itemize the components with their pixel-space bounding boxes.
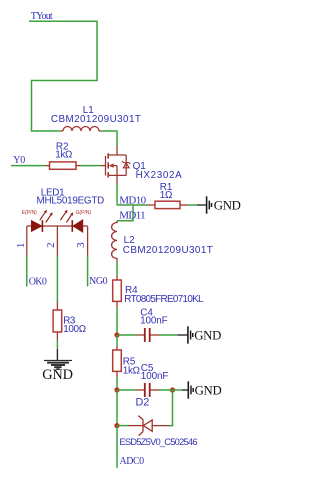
resistor R2 1kΩ [45, 165, 49, 167]
wire R1 to GND [188, 204, 197, 206]
svg-text:3: 3 [75, 242, 87, 248]
svg-text:Y0: Y0 [13, 155, 25, 166]
svg-text:100nF: 100nF [140, 316, 168, 327]
wire R3 to GND [56, 340, 58, 350]
LED1 right diode [73, 220, 83, 233]
wire pin2 to R3 [56, 256, 58, 302]
power port GND (right of C4) [177, 326, 192, 343]
svg-text:100nF: 100nF [141, 371, 169, 382]
inductor L1 [61, 127, 102, 132]
node C4 junction [114, 332, 119, 337]
wire pin3 to NG0 [87, 256, 89, 287]
wire R2 to Q1 gate [81, 165, 101, 167]
wire R5 to C5 node [116, 377, 118, 390]
inductor L2 [112, 221, 117, 262]
svg-text:OK0: OK0 [29, 277, 47, 288]
wire branch down to L2 [117, 205, 133, 221]
resistor R4 RT0805FRE0710KL [116, 275, 118, 280]
svg-text:1kΩ: 1kΩ [55, 150, 72, 161]
wire L1 to Q1 drain [101, 131, 117, 146]
svg-text:GND: GND [195, 383, 222, 397]
wire D2 up to C5 node [170, 390, 173, 426]
svg-text:GND: GND [42, 367, 73, 383]
Q1 body diode [122, 161, 130, 168]
LED1 left diode [31, 220, 42, 231]
wire C4 to GND [160, 334, 178, 336]
resistor R1 1Ω [147, 204, 155, 206]
wire D2 node down to ADC0 [116, 426, 118, 468]
wire R4 to C4 node [116, 307, 118, 335]
svg-text:E(P/N): E(P/N) [22, 210, 37, 216]
svg-text:MD11: MD11 [119, 209, 145, 221]
svg-text:MHL5019EGTD: MHL5019EGTD [37, 196, 105, 207]
wire Q1 source down to MD10 node [116, 184, 118, 205]
svg-text:1Ω: 1Ω [160, 190, 172, 201]
node C5 junction left [114, 387, 119, 392]
power port GND (right of C5) [182, 381, 193, 398]
node D2 junction [114, 423, 119, 428]
svg-text:GND: GND [194, 328, 221, 342]
ground GND (earth symbol) [44, 349, 72, 369]
svg-text:NG0: NG0 [89, 276, 108, 287]
wire L2 to R4 [116, 262, 118, 276]
svg-text:CBM201209U301T: CBM201209U301T [123, 245, 213, 256]
transistor Q1 (P-MOSFET HX2302A) [101, 146, 126, 184]
svg-text:HX2302A: HX2302A [136, 170, 183, 181]
capacitor C4 100nF [137, 334, 145, 336]
wire C5 node down to D2 node [116, 390, 118, 426]
wire TYout to L1 [29, 21, 97, 131]
svg-text:GND: GND [214, 198, 241, 212]
resistor R3 100Ω [56, 302, 58, 311]
wire node to D2 [117, 425, 128, 427]
wire pin1 to OK0 [26, 256, 28, 287]
wire Y0 to R2 [11, 165, 45, 167]
svg-text:G(P/N): G(P/N) [76, 210, 92, 216]
wire node to C4 [117, 334, 137, 336]
resistor R5 1kΩ [116, 335, 118, 346]
capacitor C5 100nF [137, 389, 145, 391]
LED1 body wires [27, 226, 88, 256]
svg-text:2: 2 [45, 242, 57, 248]
power port GND (right of R1) [197, 196, 212, 213]
svg-text:1kΩ: 1kΩ [123, 365, 140, 376]
LED1 emission arrows right [60, 210, 73, 223]
wire C5 to GND [160, 389, 183, 391]
svg-text:ADC0: ADC0 [120, 456, 145, 467]
svg-text:1: 1 [15, 243, 27, 249]
LED1 emission arrows left [40, 210, 53, 223]
wire node to C5 [117, 389, 137, 391]
node C5 junction right [170, 387, 175, 392]
svg-text:100Ω: 100Ω [63, 324, 86, 335]
svg-text:RT0805FRE0710KL: RT0805FRE0710KL [124, 294, 204, 305]
svg-text:ESD5Z5V0_C502546: ESD5Z5V0_C502546 [119, 436, 197, 447]
wire MD10 to R1 [117, 204, 147, 206]
zener diode D2 ESD5Z5V0 [128, 416, 170, 436]
svg-text:CBM201209U301T: CBM201209U301T [51, 114, 141, 125]
svg-text:TYout: TYout [31, 11, 53, 22]
svg-text:D2: D2 [136, 396, 150, 408]
